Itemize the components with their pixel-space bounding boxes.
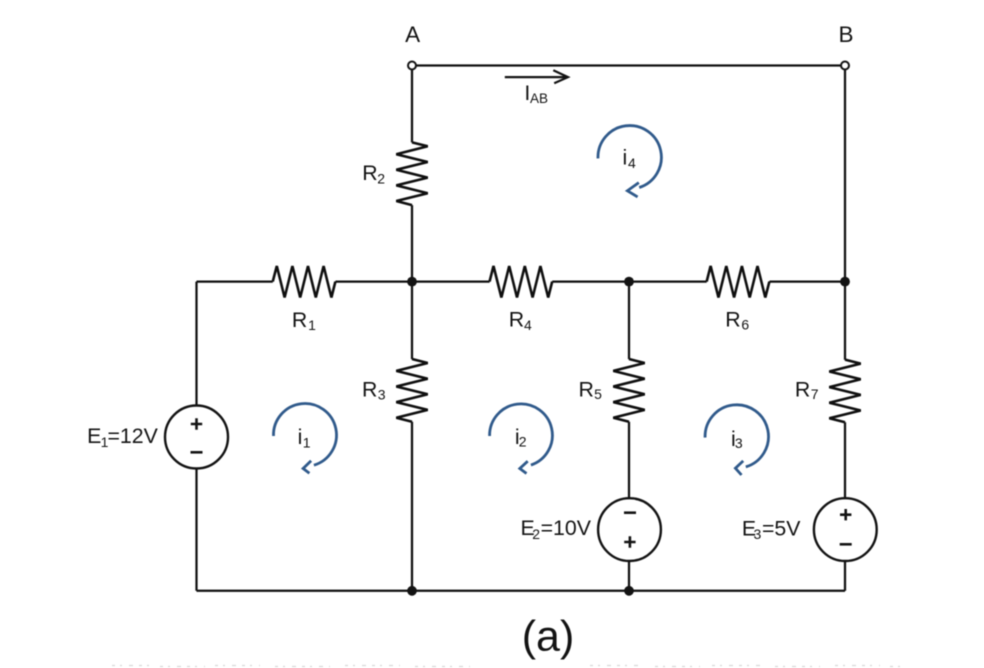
svg-text:3: 3: [378, 387, 386, 403]
mesh current loop i1: [273, 403, 336, 473]
svg-text:2: 2: [519, 433, 527, 449]
svg-text:A: A: [405, 22, 420, 47]
svg-text:4: 4: [628, 155, 636, 171]
resistor R6: [707, 266, 770, 298]
svg-text:R: R: [362, 378, 377, 402]
svg-text:=5V: =5V: [762, 517, 801, 541]
svg-text:R: R: [292, 308, 307, 332]
resistor R7: [829, 360, 860, 423]
svg-text:6: 6: [741, 317, 749, 333]
svg-text:1: 1: [303, 434, 311, 450]
wire left column mid rail down: [195, 282, 197, 406]
svg-text:R: R: [362, 161, 377, 185]
resistor R3: [396, 359, 427, 422]
wire R5 to E2: [628, 422, 630, 499]
svg-text:AB: AB: [530, 91, 548, 106]
voltage source E1: [165, 406, 228, 469]
resistor R4: [490, 266, 553, 298]
mesh current loop i3: [705, 405, 768, 475]
wire R3 to bottom rail: [411, 422, 413, 591]
node B terminal: [841, 62, 849, 70]
svg-text:B: B: [838, 22, 853, 47]
wire top rail A to B: [416, 64, 841, 66]
wire right column to R7: [844, 282, 846, 360]
resistor R2: [396, 142, 427, 205]
junction dot bottom rail at R3 column: [407, 586, 417, 596]
mesh current loop i2: [490, 404, 553, 474]
junction dot mid rail at R5 column: [624, 277, 634, 287]
svg-text:3: 3: [754, 526, 762, 542]
wire E2 to bottom rail: [628, 561, 630, 591]
clipped text row artifact at bottom: [112, 666, 900, 667]
wire mid column R3 upper: [411, 282, 413, 360]
voltage source E2: [598, 498, 661, 561]
junction dot bottom rail at E2 column: [624, 586, 634, 596]
svg-text:7: 7: [811, 386, 819, 402]
current arrow IAB: [505, 70, 568, 83]
wire mid rail left segment: [197, 280, 273, 282]
svg-text:4: 4: [524, 317, 532, 333]
svg-text:2: 2: [377, 171, 385, 187]
voltage source E3: [814, 498, 877, 561]
wire E1 to bottom rail: [195, 469, 197, 591]
junction dot mid rail at R3 column: [407, 277, 417, 287]
wire R7 to E3: [844, 422, 846, 498]
wire bottom rail: [197, 590, 846, 592]
wire mid rail segment R1 to R4: [335, 280, 489, 282]
wire right column B down: [844, 70, 846, 282]
svg-text:2: 2: [532, 526, 540, 542]
resistor R1: [273, 266, 336, 298]
mesh current loop i4: [598, 126, 661, 197]
wire A column upper: [411, 70, 413, 143]
svg-text:E: E: [87, 424, 101, 448]
resistor R5: [613, 359, 644, 422]
svg-text:5: 5: [594, 386, 602, 402]
junction dot mid rail at right column: [840, 277, 850, 287]
wire R2 to mid rail: [411, 205, 413, 282]
wire mid rail segment R6 to right: [769, 280, 845, 282]
svg-text:(a): (a): [522, 613, 575, 661]
svg-text:R: R: [509, 308, 524, 332]
wire column R5 upper: [628, 282, 630, 360]
svg-text:i: i: [298, 425, 303, 449]
wire E3 to bottom rail: [844, 561, 846, 591]
wire mid rail segment R4 to R6: [552, 280, 707, 282]
svg-text:=10V: =10V: [541, 516, 592, 540]
svg-text:=12V: =12V: [108, 424, 159, 448]
svg-text:i: i: [623, 145, 628, 169]
svg-text:R: R: [725, 308, 740, 332]
svg-text:1: 1: [308, 317, 316, 333]
svg-text:R: R: [579, 377, 594, 401]
node A terminal: [408, 62, 416, 70]
svg-text:R: R: [795, 377, 810, 401]
svg-text:3: 3: [735, 435, 743, 451]
